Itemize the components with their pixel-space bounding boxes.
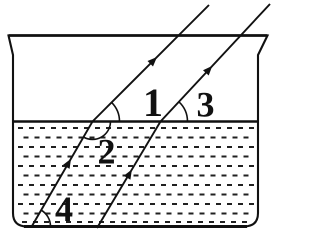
arrowhead left ray below surface <box>63 159 71 169</box>
left ray above surface <box>93 5 210 122</box>
svg-text:1: 1 <box>143 80 163 125</box>
arrowhead right ray below surface <box>124 170 132 180</box>
arrowhead right ray above surface <box>203 66 212 76</box>
svg-text:4: 4 <box>55 189 73 229</box>
arrowhead left ray above surface <box>148 57 158 67</box>
liquid surface <box>14 120 258 123</box>
svg-text:2: 2 <box>98 132 116 172</box>
beaker outline <box>9 36 268 227</box>
angle arc 1 <box>112 102 120 121</box>
left ray below surface <box>32 122 93 227</box>
liquid dashed fill <box>18 128 254 222</box>
right ray below surface <box>97 122 161 229</box>
right ray above surface <box>161 4 271 122</box>
beaker top rim (thicker) <box>9 34 268 37</box>
svg-text:3: 3 <box>197 85 215 125</box>
angle arc 3 <box>179 102 188 122</box>
angle arc 2 <box>83 122 110 140</box>
angle arc 4 <box>41 210 51 227</box>
beaker bottom (thicker) <box>24 225 247 228</box>
